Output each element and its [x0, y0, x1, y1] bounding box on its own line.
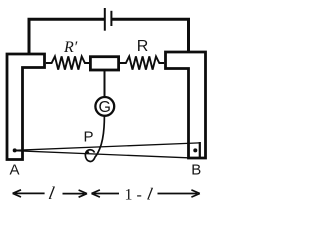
B end inner plate	[199, 142, 201, 158]
slide wire upper line	[15, 143, 200, 150]
right copper strip (L-shape)	[166, 52, 206, 158]
dimension arrow toward P (points right)	[63, 193, 85, 195]
svg-text:R: R	[137, 38, 149, 55]
dimension arrow from P (points left)	[94, 193, 119, 195]
resistor R zigzag	[120, 56, 164, 69]
svg-text:1 -: 1 -	[125, 187, 142, 204]
left copper strip (L-shape)	[7, 54, 45, 160]
label l	[47, 183, 56, 203]
dimension arrow right (points right)	[158, 193, 198, 195]
battery cell: short plate	[110, 11, 112, 26]
svg-text:B: B	[191, 161, 201, 178]
dimension arrow left (points left)	[15, 192, 45, 194]
middle binding block	[90, 57, 118, 70]
node A terminal dot	[13, 148, 17, 152]
jockey wire curve from G to P	[85, 116, 104, 162]
svg-text:P: P	[84, 129, 94, 146]
wire top right segment	[112, 19, 189, 52]
svg-text:G: G	[98, 99, 110, 116]
node B terminal dot	[193, 148, 197, 152]
wire block to galvanometer	[104, 70, 106, 98]
battery cell: long plate	[104, 8, 106, 31]
svg-text:R′: R′	[63, 39, 78, 56]
resistor R' zigzag	[46, 56, 89, 69]
jockey arrowhead at P	[84, 150, 90, 154]
galvanometer G circle	[95, 97, 114, 116]
svg-text:A: A	[9, 161, 19, 178]
slide wire lower line	[15, 151, 188, 158]
wire top left segment	[29, 19, 104, 55]
